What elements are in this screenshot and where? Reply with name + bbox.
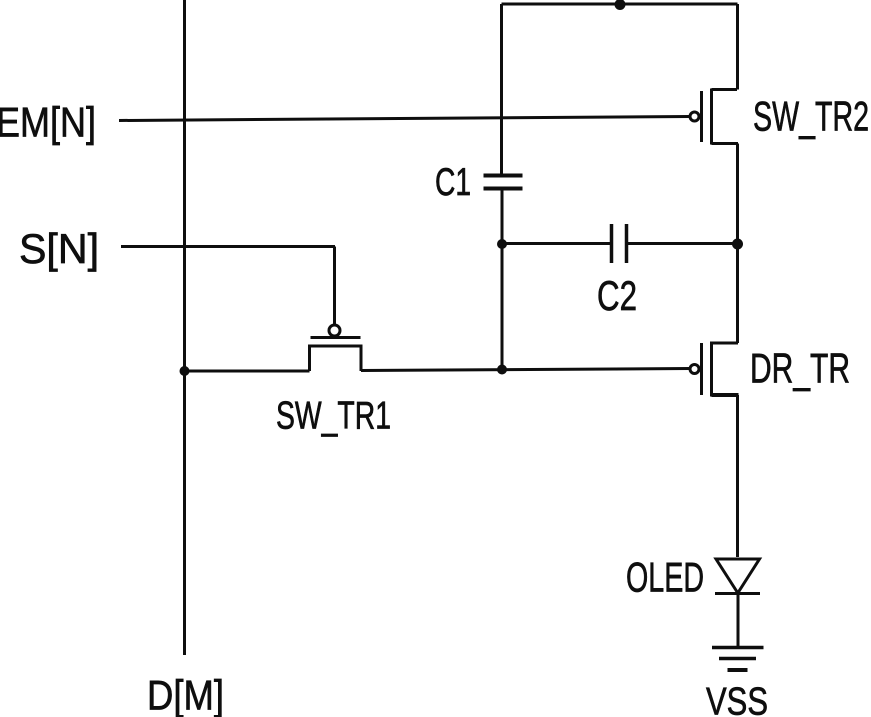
capacitor C2	[612, 224, 627, 263]
transistor DR_TR	[690, 342, 739, 397]
wire DR_TR bottom down to OLED	[736, 395, 739, 557]
svg-text:C1: C1	[435, 161, 471, 204]
wire storage node row right segment	[628, 242, 738, 245]
wire SW_TR2 source down to node	[736, 144, 739, 244]
ground VSS symbol	[712, 648, 764, 671]
svg-text:S[N]: S[N]	[19, 225, 99, 272]
svg-text:EM[N]: EM[N]	[0, 99, 96, 146]
node junction dot on D[M]	[180, 366, 190, 376]
wire row: SW_TR1 to DR_TR gate	[361, 369, 690, 371]
transistor SW_TR1	[310, 325, 362, 371]
node power junction dot	[615, 0, 626, 10]
capacitor C1	[484, 176, 523, 189]
wire D[M] data line vertical	[183, 0, 186, 655]
svg-text:SW_TR1: SW_TR1	[276, 395, 391, 438]
transistor SW_TR2	[690, 89, 738, 145]
svg-text:VSS: VSS	[706, 681, 768, 717]
diode OLED	[715, 559, 760, 594]
svg-text:SW_TR2: SW_TR2	[753, 93, 869, 140]
wire ELVDD top rail	[502, 3, 738, 6]
wire node to DR_TR top	[736, 244, 739, 344]
wire S[N] horizontal	[121, 247, 335, 325]
wire SW_TR2 drain up to rail	[736, 4, 739, 90]
svg-text:C2: C2	[597, 272, 637, 319]
wire row: D[M] to SW_TR1	[185, 370, 310, 373]
wire C1 bottom branch	[501, 190, 504, 371]
node junction dot right rail / node row	[732, 239, 743, 250]
svg-text:D[M]: D[M]	[147, 672, 224, 717]
node junction dot C1 branch on row	[497, 365, 507, 375]
wire OLED cathode to ground	[737, 594, 740, 646]
wire C1 top branch	[500, 4, 503, 174]
wire EM[N] horizontal to SW_TR2 gate	[119, 117, 690, 121]
wire storage node row left segment	[502, 242, 611, 245]
node junction dot C1 line / node row	[497, 239, 507, 249]
svg-text:DR_TR: DR_TR	[750, 345, 850, 392]
svg-text:OLED: OLED	[626, 554, 704, 601]
